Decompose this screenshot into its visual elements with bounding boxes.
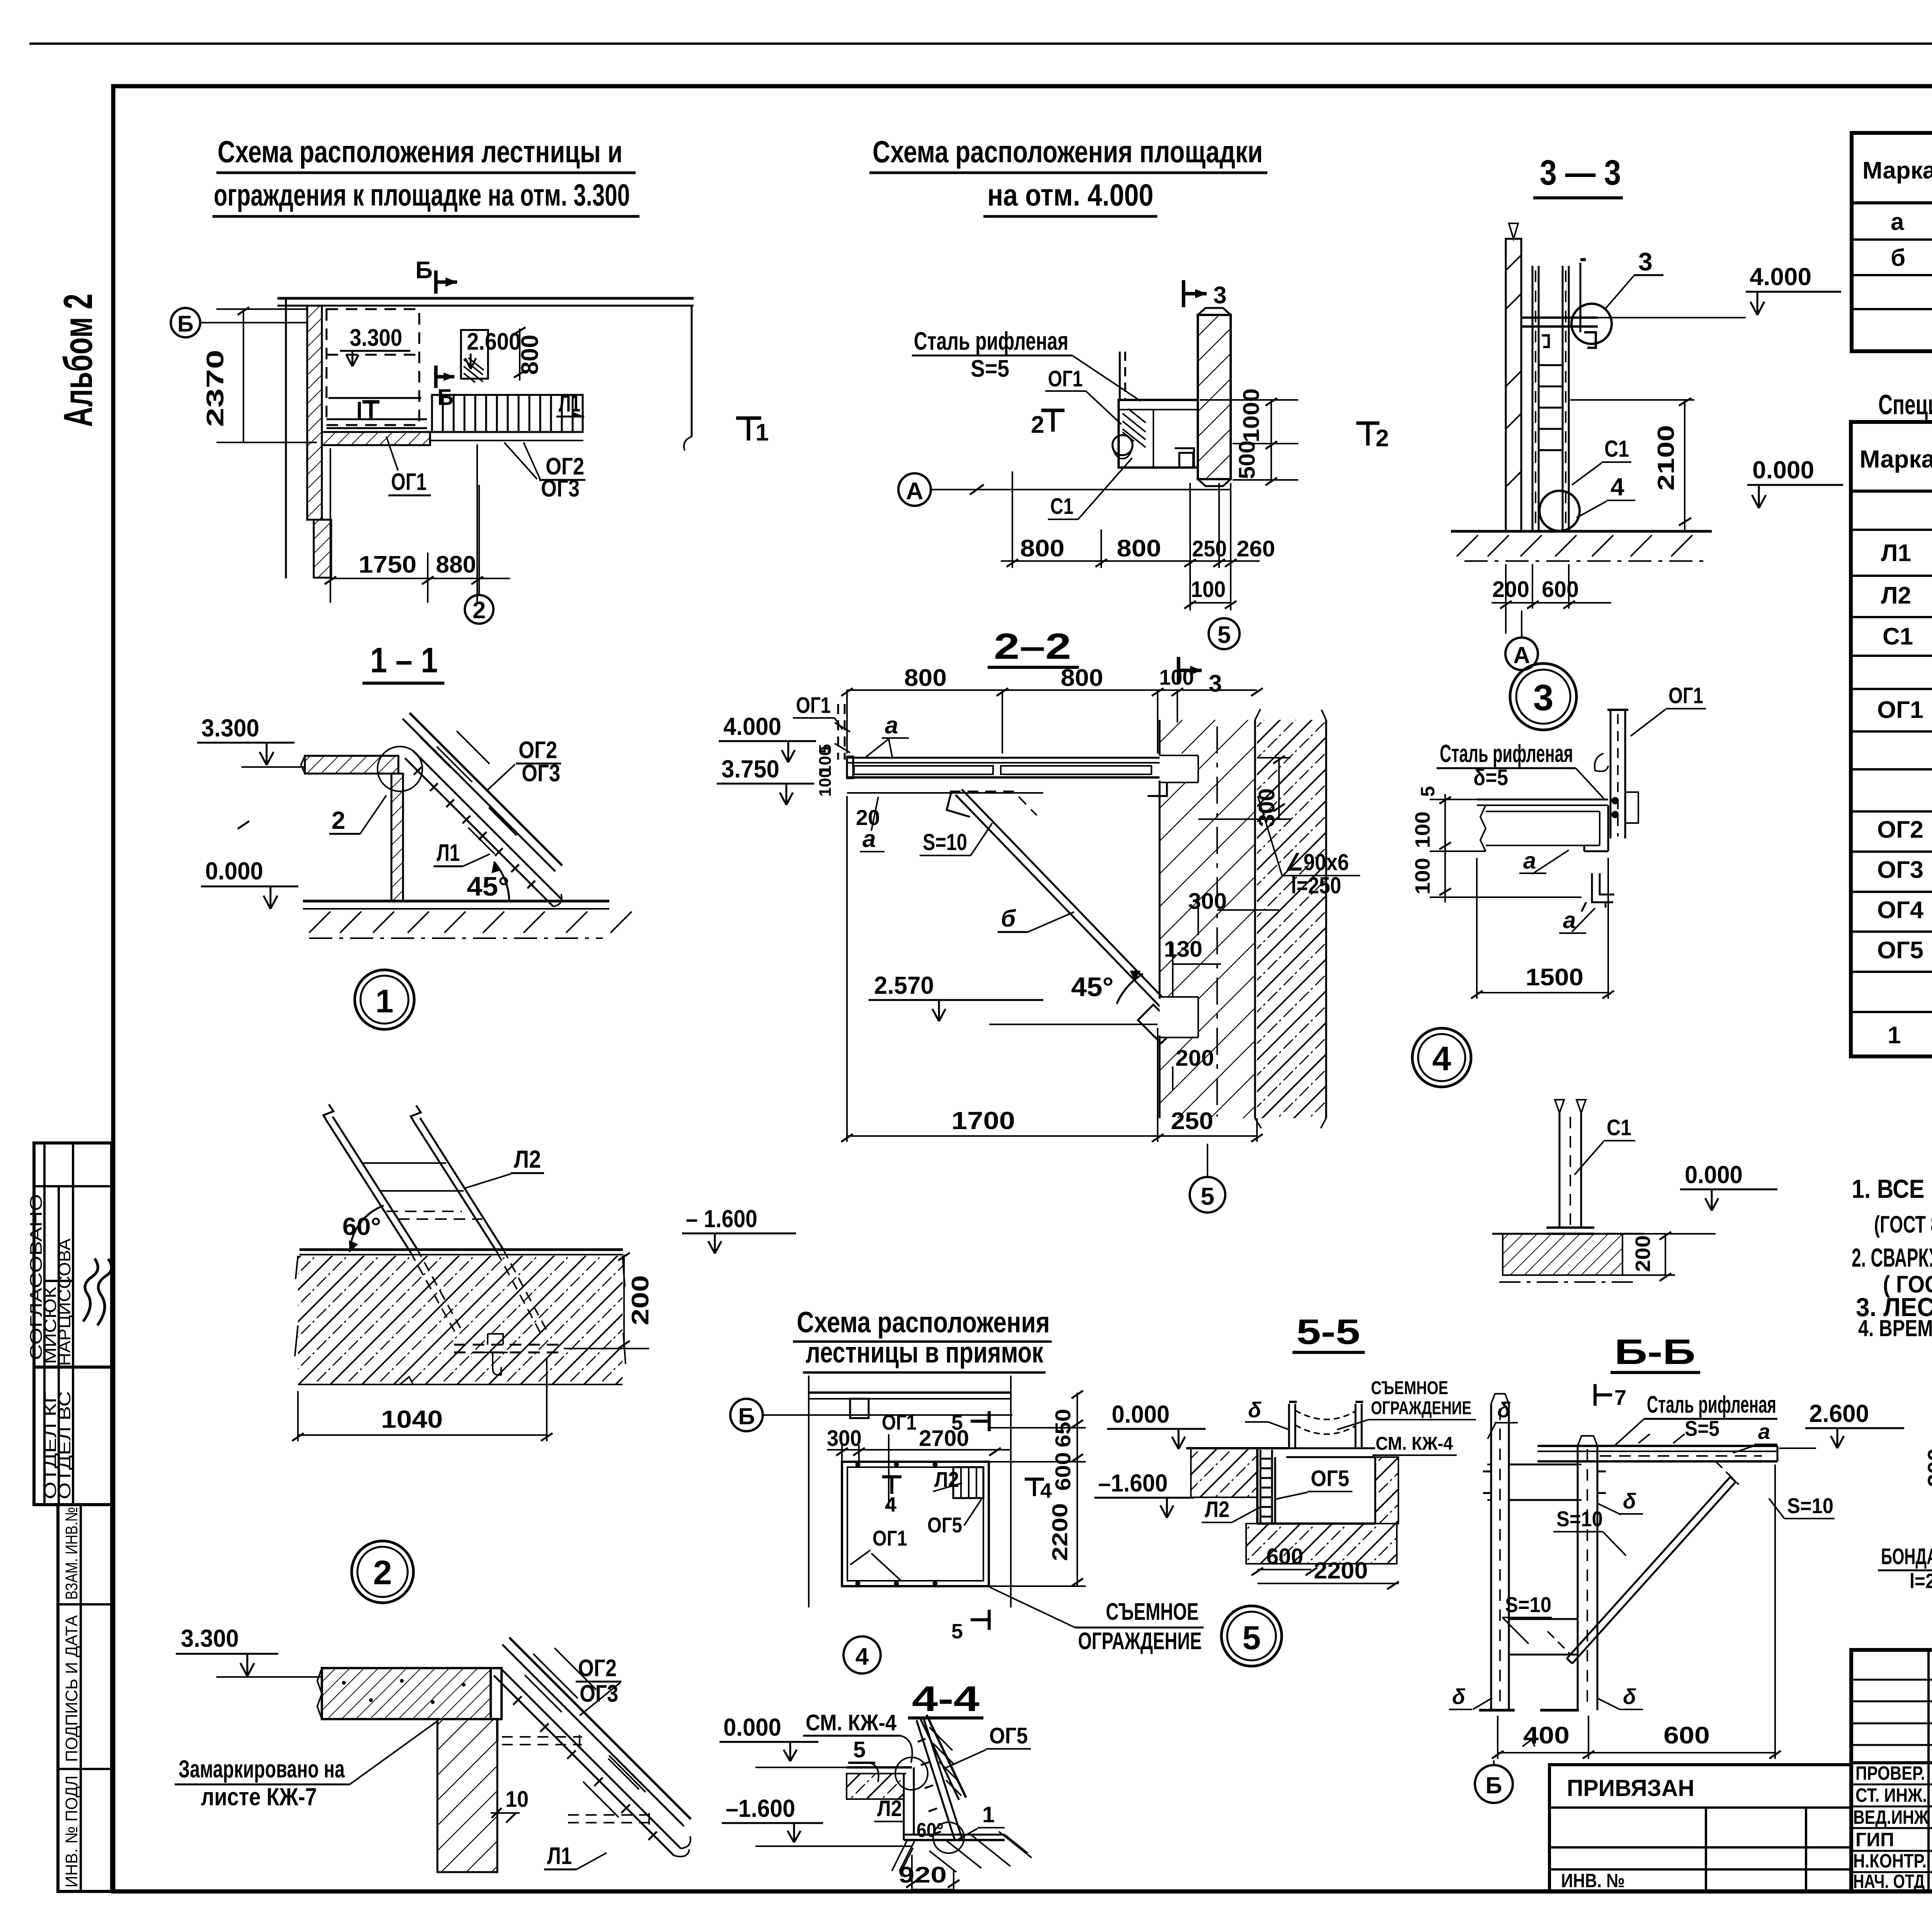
- view K elev -1.600: [722, 1794, 912, 1846]
- view H dim 10: [491, 1787, 529, 1823]
- view B railing OG1 post: [1112, 352, 1133, 459]
- svg-text:5-5: 5-5: [1296, 1312, 1360, 1352]
- svg-text:ОГ1: ОГ1: [796, 693, 831, 718]
- view J title: [1293, 1312, 1365, 1352]
- svg-text:ОГ5: ОГ5: [1877, 937, 1923, 964]
- svg-text:3: 3: [1213, 282, 1226, 309]
- svg-text:а: а: [1891, 209, 1904, 235]
- detail 3 circle: [1510, 663, 1577, 730]
- detail 4 label C1: [1575, 1115, 1635, 1175]
- svg-text:5: 5: [1218, 622, 1231, 648]
- view M dim 300: [1923, 1424, 1932, 1515]
- svg-text:2: 2: [473, 597, 486, 624]
- svg-text:500: 500: [1235, 440, 1260, 479]
- view K joint circles: [895, 1757, 928, 1790]
- view B section mark 2 right: [1356, 423, 1389, 452]
- view J elev 0.000: [1107, 1400, 1206, 1449]
- svg-text:СЪЕМНОЕ: СЪЕМНОЕ: [1106, 1599, 1199, 1625]
- svg-text:4: 4: [885, 1493, 896, 1516]
- view A platform dashed OG1: [327, 309, 427, 428]
- view A section mark B lower: [436, 366, 454, 410]
- svg-text:Марка: Марка: [1862, 157, 1932, 184]
- view K ladder L2 steep: [917, 1715, 966, 1841]
- svg-text:0.000: 0.000: [1752, 456, 1814, 484]
- view A label OG1: [386, 437, 431, 495]
- svg-text:7: 7: [1614, 1385, 1626, 1410]
- view D labels OG2 OG3: [486, 737, 561, 791]
- svg-text:100: 100: [1159, 665, 1194, 689]
- view A title: [213, 134, 639, 216]
- svg-text:600: 600: [1051, 1452, 1075, 1491]
- detail 3 lower angle: [1582, 873, 1614, 912]
- view B bottom dims: [1001, 471, 1260, 611]
- view K section mark 5: [848, 1737, 879, 1782]
- view E embedded angle label: [1258, 796, 1360, 898]
- svg-text:1: 1: [755, 419, 769, 446]
- view J chain railing: [1289, 1402, 1363, 1448]
- svg-text:1500: 1500: [1526, 964, 1583, 991]
- svg-text:400: 400: [1523, 1722, 1570, 1749]
- view D joint circle: [378, 747, 422, 791]
- svg-text:ОГ1: ОГ1: [1048, 366, 1083, 391]
- svg-text:800: 800: [517, 335, 543, 375]
- view I top beam: [809, 1376, 1011, 1607]
- svg-text:ОГ5: ОГ5: [1311, 1466, 1349, 1491]
- svg-text:5: 5: [1201, 1182, 1214, 1210]
- svg-text:Схема расположения лестницы и: Схема расположения лестницы и: [218, 134, 622, 169]
- view D title 1-1: [362, 641, 444, 683]
- view B section mark 3 bottom: [1179, 657, 1222, 697]
- svg-text:Альбом 2: Альбом 2: [56, 294, 101, 427]
- detail 3 OG1 label: [1631, 683, 1706, 736]
- view E left small dims: [816, 744, 880, 830]
- svg-text:ОГ2: ОГ2: [578, 1655, 617, 1682]
- svg-text:ОГРАЖДЕНИЕ: ОГРАЖДЕНИЕ: [1371, 1398, 1471, 1418]
- view E wall hatched: [1160, 709, 1327, 1128]
- detail 3 dim 1500: [1471, 858, 1614, 999]
- album label: Альбом 2: [56, 294, 101, 427]
- svg-text:200: 200: [1492, 577, 1529, 602]
- view A elev mark 3.300: [340, 325, 410, 366]
- svg-text:ВЗАМ. ИНВ.№: ВЗАМ. ИНВ.№: [62, 1507, 81, 1600]
- view H label L1: [544, 1843, 607, 1869]
- spec row OG1: [1877, 697, 1932, 725]
- view G rails: [323, 1104, 547, 1334]
- svg-text:БОНДАЖ S=10: БОНДАЖ S=10: [1881, 1544, 1932, 1569]
- svg-text:листе КЖ-7: листе КЖ-7: [201, 1783, 317, 1811]
- view B title: [869, 134, 1267, 216]
- svg-text:5: 5: [1417, 786, 1439, 797]
- view M bandage label: [1878, 1515, 1932, 1593]
- svg-text:ИНВ. № ПОДЛ: ИНВ. № ПОДЛ: [62, 1776, 81, 1888]
- svg-text:S=10: S=10: [923, 829, 967, 855]
- table vedomost row b: [1891, 245, 1932, 273]
- view C label C1: [1572, 436, 1631, 485]
- view D elev 0.000: [201, 857, 298, 909]
- view G label L2: [464, 1145, 544, 1189]
- view A axis circle B: [171, 308, 307, 337]
- view L elev 2.600: [1779, 1400, 1904, 1448]
- page top edge line: [29, 43, 1932, 45]
- svg-text:ОГ4: ОГ4: [1877, 897, 1924, 923]
- svg-text:Схема расположения площадки: Схема расположения площадки: [872, 134, 1263, 169]
- svg-text:l=200: l=200: [1910, 1570, 1932, 1593]
- svg-text:а: а: [862, 826, 876, 852]
- detail 3 railing post: [1595, 710, 1638, 838]
- view B label C1: [1048, 458, 1132, 519]
- view B section mark 3 top: [1184, 280, 1226, 309]
- svg-text:(ГОСТ 8292-85) ЗА 2 РАЗА П: (ГОСТ 8292-85) ЗА 2 РАЗА ПО ГРУНТОВКЕ ГФ…: [1874, 1211, 1932, 1238]
- view E node circle 5: [1190, 1144, 1225, 1213]
- svg-text:ОГРАЖДЕНИЕ: ОГРАЖДЕНИЕ: [1078, 1628, 1202, 1655]
- view J label delta: [1245, 1398, 1289, 1430]
- svg-text:S=5: S=5: [971, 355, 1009, 382]
- view J removable rail labels: [1337, 1378, 1476, 1455]
- svg-text:–1.600: –1.600: [1098, 1469, 1168, 1497]
- svg-text:600: 600: [1266, 1544, 1303, 1569]
- svg-text:Марка: Марка: [1860, 445, 1932, 473]
- view K label OG5: [946, 1723, 1031, 1768]
- svg-text:А: А: [906, 478, 923, 505]
- svg-text:δ: δ: [1623, 1489, 1636, 1513]
- svg-text:2.570: 2.570: [874, 971, 934, 999]
- svg-text:4: 4: [1611, 473, 1624, 501]
- svg-text:Л1: Л1: [1881, 540, 1911, 566]
- view D elev 3.300: [197, 714, 305, 767]
- svg-text:800: 800: [1117, 535, 1161, 562]
- svg-text:а: а: [885, 712, 898, 739]
- view I right dims: [989, 1391, 1086, 1586]
- svg-text:ВЕД.ИНЖ: ВЕД.ИНЖ: [1853, 1806, 1929, 1828]
- view D ground: [303, 901, 632, 938]
- svg-text:Б-Б: Б-Б: [1614, 1332, 1696, 1372]
- view E elev 4.000: [719, 713, 816, 762]
- view A node circle 2: [465, 485, 493, 624]
- spec grid: [1851, 422, 1932, 1056]
- svg-text:Б: Б: [738, 1403, 755, 1429]
- view E elev 3.750: [717, 755, 814, 805]
- svg-text:60°: 60°: [342, 1213, 381, 1240]
- view E right dims: [1173, 756, 1291, 1090]
- spec row OG5: [1877, 937, 1932, 965]
- svg-text:100: 100: [1411, 858, 1434, 895]
- view B right dims 1000 500: [1200, 398, 1298, 485]
- view L axis circle B: [1475, 1760, 1513, 1803]
- svg-text:Л1: Л1: [437, 840, 460, 866]
- svg-text:2200: 2200: [1048, 1503, 1072, 1561]
- svg-text:ИНВ. №: ИНВ. №: [1561, 1870, 1625, 1891]
- view D wall below slab: [391, 774, 403, 901]
- view L columns with battens: [1479, 1394, 1606, 1710]
- view E title 2-2: [988, 626, 1079, 667]
- svg-text:800: 800: [1020, 535, 1065, 562]
- svg-text:ОГ3: ОГ3: [580, 1680, 618, 1707]
- svg-text:ГИП: ГИП: [1855, 1829, 1894, 1850]
- view L bottom dims 400 600: [1492, 1464, 1781, 1759]
- svg-text:ОГ1: ОГ1: [391, 469, 427, 495]
- spec header: [1860, 434, 1932, 485]
- svg-text:СМ. КЖ-4: СМ. КЖ-4: [1376, 1434, 1453, 1454]
- svg-text:130: 130: [1164, 937, 1202, 962]
- view B section mark 2 left: [1031, 410, 1065, 438]
- view E label OG1: [793, 693, 842, 730]
- view E 45 deg: [1071, 971, 1143, 1004]
- view L platform beam: [1537, 1434, 1777, 1461]
- svg-text:200: 200: [1631, 1235, 1655, 1272]
- view B label steel sheet: [912, 327, 1141, 401]
- svg-text:А: А: [1513, 642, 1530, 668]
- svg-text:300: 300: [1254, 788, 1279, 827]
- svg-text:ОТДЕЛ ВС: ОТДЕЛ ВС: [55, 1391, 74, 1499]
- spec row OG4: [1877, 897, 1932, 925]
- view B section mark 1 left: [736, 418, 769, 446]
- detail 4 dim 200: [1622, 1232, 1675, 1281]
- svg-text:1040: 1040: [381, 1405, 443, 1433]
- view E diagonal brace: [947, 789, 1177, 1043]
- view I pit rectangle: [842, 1462, 989, 1586]
- view G anchor: [454, 1334, 564, 1375]
- view E top dims: [841, 688, 1263, 753]
- table vedomost header text: [1862, 137, 1932, 205]
- svg-text:3 — 3: 3 — 3: [1540, 153, 1621, 192]
- detail 4 ground: [1492, 1234, 1644, 1282]
- svg-text:Замаркировано на: Замаркировано на: [179, 1755, 345, 1783]
- view D node circle 1: [355, 970, 414, 1029]
- spec row OG2: [1877, 816, 1932, 845]
- svg-text:С1: С1: [1050, 494, 1073, 519]
- view J node circle 5: [1221, 1606, 1282, 1666]
- view C top bracket: [1521, 318, 1598, 348]
- svg-text:300: 300: [1923, 1448, 1932, 1487]
- view A dim 2370: [202, 307, 317, 829]
- svg-text:0.000: 0.000: [1685, 1161, 1743, 1189]
- svg-text:260: 260: [1236, 536, 1275, 561]
- view A top beam wall: [277, 298, 694, 578]
- svg-text:0.000: 0.000: [205, 857, 263, 885]
- view I title: [793, 1306, 1052, 1372]
- svg-text:0.000: 0.000: [1112, 1400, 1170, 1428]
- view I removable rail note: [990, 1587, 1204, 1655]
- svg-text:4: 4: [855, 1643, 869, 1670]
- svg-text:S=10: S=10: [1505, 1592, 1551, 1617]
- view A hatched opening 2.600: [461, 328, 521, 383]
- svg-text:S=10: S=10: [1556, 1507, 1603, 1531]
- svg-text:250: 250: [1171, 1108, 1213, 1134]
- view L section mark 7 top: [1595, 1384, 1626, 1410]
- svg-text:650: 650: [1051, 1409, 1075, 1447]
- svg-text:3.300: 3.300: [201, 714, 259, 742]
- svg-text:Сталь рифленая: Сталь рифленая: [914, 327, 1068, 355]
- table vedomost row a: [1891, 209, 1932, 236]
- svg-text:Б: Б: [177, 311, 194, 337]
- detail 3 steel sheet label: [1437, 740, 1604, 798]
- svg-text:1: 1: [1888, 1022, 1901, 1049]
- svg-text:δ: δ: [1497, 1398, 1511, 1422]
- view K label sm KZh-4: [803, 1710, 912, 1763]
- svg-text:920: 920: [898, 1862, 947, 1888]
- view H angle trim: [491, 1668, 502, 1742]
- view I section marks 4: [882, 1477, 1052, 1516]
- view K title: [908, 1679, 983, 1719]
- svg-text:НАРЦИССОВА: НАРЦИССОВА: [55, 1238, 74, 1366]
- view K elev 0.000: [719, 1713, 847, 1767]
- svg-text:Б: Б: [1485, 1772, 1502, 1798]
- view G elev -1.600: [682, 1205, 796, 1253]
- view A ladder L1: [429, 395, 583, 440]
- svg-text:Сталь рифленая: Сталь рифленая: [1647, 1391, 1776, 1418]
- svg-text:ПРОВЕР.: ПРОВЕР.: [1855, 1762, 1925, 1784]
- svg-text:2: 2: [332, 806, 345, 834]
- svg-text:Схема расположения: Схема расположения: [797, 1306, 1050, 1339]
- svg-text:5: 5: [853, 1737, 866, 1762]
- svg-text:лестницы в приямок: лестницы в приямок: [806, 1336, 1044, 1369]
- svg-text:1 – 1: 1 – 1: [370, 641, 438, 680]
- svg-text:ОГ5: ОГ5: [989, 1723, 1028, 1748]
- view K labels: [874, 1796, 1005, 1842]
- view I node circle 4: [844, 1636, 881, 1673]
- view G dim 1040: [292, 1358, 553, 1441]
- svg-text:2100: 2100: [1653, 425, 1679, 491]
- view I labels: [872, 1410, 962, 1550]
- svg-text:3.300: 3.300: [181, 1624, 239, 1652]
- view C node circle 3: [1571, 247, 1663, 344]
- svg-text:на отм. 4.000: на отм. 4.000: [987, 178, 1153, 212]
- svg-text:– 1.600: – 1.600: [686, 1205, 757, 1233]
- svg-text:Н.КОНТР.: Н.КОНТР.: [1853, 1850, 1927, 1872]
- svg-text:НАЧ. ОТД: НАЧ. ОТД: [1853, 1871, 1925, 1892]
- svg-text:1000: 1000: [1239, 388, 1264, 442]
- view E label b: [998, 905, 1074, 932]
- svg-text:Л2: Л2: [1205, 1497, 1230, 1522]
- svg-text:С1: С1: [1607, 1115, 1631, 1140]
- view A bottom dims 1750 880: [325, 444, 510, 603]
- view L steel label: [1615, 1391, 1777, 1445]
- view D floor slab: [301, 756, 398, 774]
- svg-text:2200: 2200: [1314, 1558, 1368, 1583]
- view A label L1: [556, 390, 584, 417]
- svg-text:300: 300: [1188, 889, 1227, 914]
- view L title: [1611, 1332, 1700, 1372]
- svg-text:ОГ5: ОГ5: [927, 1513, 962, 1537]
- view D label L1: [434, 840, 490, 866]
- detail 4 circle: [1412, 1028, 1471, 1087]
- svg-text:ОГ1: ОГ1: [872, 1526, 907, 1550]
- svg-text:1. ВСЕ МЕТАЛЛИЧЕСКИЕ КОНСТР: 1. ВСЕ МЕТАЛЛИЧЕСКИЕ КОНСТРУКЦИИ ОКРАСИТ…: [1852, 1174, 1932, 1204]
- svg-text:ОГ3: ОГ3: [1877, 857, 1923, 883]
- svg-text:ОГ2: ОГ2: [1877, 816, 1923, 843]
- view C wall panel: [1506, 223, 1521, 531]
- svg-text:Сталь рифленая: Сталь рифленая: [1440, 740, 1573, 767]
- detail 4 column C1: [1546, 1100, 1594, 1234]
- view C bottom dims 200 600: [1492, 564, 1611, 634]
- svg-text:СТ. ИНЖ.: СТ. ИНЖ.: [1855, 1784, 1927, 1806]
- svg-text:СЪЕМНОЕ: СЪЕМНОЕ: [1371, 1378, 1448, 1398]
- svg-text:Л1: Л1: [547, 1843, 572, 1869]
- svg-text:ограждения к площадке на отм.: ограждения к площадке на отм. 3.300: [214, 178, 630, 212]
- svg-text:60°: 60°: [917, 1819, 944, 1842]
- svg-text:0.000: 0.000: [723, 1713, 781, 1741]
- svg-text:2: 2: [1376, 425, 1389, 452]
- svg-text:Л2: Л2: [1881, 582, 1911, 609]
- svg-text:ОГ1: ОГ1: [882, 1410, 917, 1434]
- svg-text:800: 800: [904, 665, 947, 691]
- svg-text:600: 600: [1663, 1722, 1710, 1749]
- svg-text:2.600: 2.600: [467, 328, 521, 355]
- view E label S=10: [920, 823, 992, 855]
- left margin stamp: approval strip: [34, 1143, 112, 1891]
- svg-text:2–2: 2–2: [994, 626, 1071, 667]
- view C elev 4.000: [1598, 263, 1841, 318]
- view B wall hatched right: [1198, 308, 1231, 486]
- spec row L1: [1881, 539, 1932, 575]
- spec last row strip: [1888, 1016, 1932, 1057]
- svg-text:600: 600: [1542, 577, 1579, 602]
- view H slab: [317, 1668, 491, 1719]
- view G dim 200: [564, 1253, 654, 1349]
- view K dim 920: [898, 1855, 959, 1891]
- approval signatures squiggles: [83, 1259, 112, 1325]
- svg-text:4.000: 4.000: [1750, 263, 1811, 291]
- view C node circle 4 with label: [1539, 473, 1635, 531]
- view A section mark B top: [415, 257, 457, 294]
- view C axis circle A: [1505, 611, 1538, 670]
- view B platform: [1119, 400, 1198, 468]
- svg-text:880: 880: [436, 551, 476, 578]
- view J elev -1.600: [1094, 1469, 1194, 1518]
- svg-text:Л1: Л1: [559, 390, 580, 417]
- svg-text:3.750: 3.750: [721, 755, 779, 783]
- svg-text:100: 100: [816, 769, 835, 797]
- detail 3 left dims: [1430, 794, 1582, 903]
- view G 60 deg: [342, 1206, 384, 1252]
- svg-text:∠90х6: ∠90х6: [1285, 849, 1349, 875]
- view C stremyanka posts: [1532, 260, 1586, 531]
- view J labels OG5 L2: [1202, 1466, 1352, 1522]
- svg-text:2: 2: [373, 1553, 392, 1592]
- view A dim 800 vertical: [514, 327, 543, 381]
- svg-text:4. ВРЕМЕННАЯ НОРМАТИВНАЯ НАГ: 4. ВРЕМЕННАЯ НОРМАТИВНАЯ НАГРУЗКА НА ПЛО…: [1858, 1315, 1932, 1341]
- svg-text:200: 200: [627, 1275, 654, 1325]
- detail 3 weld labels: [1519, 848, 1595, 933]
- spec row L2: [1881, 582, 1932, 611]
- view L diagonal brace: [1548, 1461, 1739, 1663]
- svg-text:5: 5: [951, 1620, 963, 1643]
- svg-text:100: 100: [1191, 577, 1226, 602]
- view H note zamarkirovano: [175, 1720, 439, 1811]
- svg-text:4.000: 4.000: [723, 713, 781, 740]
- view C elev 0.000: [1747, 456, 1843, 508]
- spec row OG3: [1877, 857, 1932, 885]
- svg-text:ОГ1: ОГ1: [1668, 683, 1703, 708]
- svg-text:4: 4: [1432, 1039, 1451, 1078]
- view I section marks 5: [951, 1411, 989, 1643]
- svg-text:2: 2: [1031, 412, 1044, 438]
- view G ground and soil: [295, 1250, 626, 1384]
- svg-text:l=250: l=250: [1291, 872, 1341, 898]
- svg-text:800: 800: [1061, 665, 1103, 691]
- view E bottom dims 1700 250: [841, 796, 1263, 1142]
- view I dims 300 2700: [827, 1445, 1011, 1462]
- view H wall below: [437, 1719, 497, 1872]
- svg-text:Спецификация к схемам располо: Спецификация к схемам расположения площа…: [1878, 389, 1932, 420]
- svg-text:δ: δ: [1452, 1684, 1466, 1709]
- svg-text:3: 3: [1533, 677, 1554, 718]
- svg-text:2. СВАРКУ ПРОИЗВОДИТЬ ПО: 2. СВАРКУ ПРОИЗВОДИТЬ ПО ГОСТ 5264-80 ЭЛ…: [1852, 1243, 1932, 1272]
- svg-text:Б: Б: [437, 385, 454, 410]
- svg-text:4: 4: [1040, 1479, 1052, 1502]
- svg-text:1: 1: [376, 983, 394, 1019]
- view E platform beam: [847, 757, 1196, 796]
